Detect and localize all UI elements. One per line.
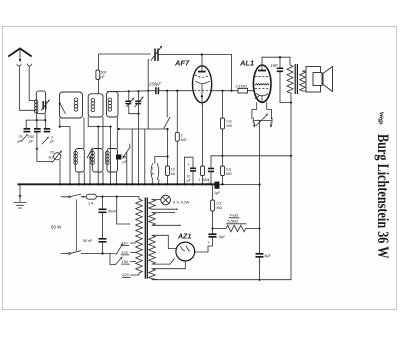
svg-text:Burg Lichtenstein 36 W: Burg Lichtenstein 36 W — [374, 134, 391, 259]
svg-text:kΩ: kΩ — [171, 172, 176, 176]
svg-text:150: 150 — [122, 259, 129, 264]
svg-text:1nF: 1nF — [271, 63, 279, 68]
svg-text:0,8: 0,8 — [226, 168, 231, 172]
svg-text:1 A: 1 A — [88, 202, 94, 206]
svg-text:MΩ: MΩ — [217, 206, 223, 210]
svg-text:50 W: 50 W — [51, 225, 62, 230]
svg-text:4 V, 0,5A: 4 V, 0,5A — [173, 200, 189, 205]
svg-text:kΩ: kΩ — [49, 155, 54, 159]
svg-text:110: 110 — [121, 241, 128, 246]
svg-text:250pF: 250pF — [148, 81, 161, 86]
svg-text:8µF: 8µF — [219, 235, 226, 239]
svg-text:10: 10 — [171, 168, 175, 172]
svg-text:2: 2 — [181, 134, 183, 138]
svg-text:T.: T. — [152, 167, 155, 171]
svg-text:Feld: Feld — [230, 213, 238, 218]
svg-text:220: 220 — [121, 272, 129, 277]
svg-text:MΩ: MΩ — [227, 124, 233, 128]
svg-text:5,5kΩ: 5,5kΩ — [228, 219, 239, 224]
svg-text:0,2: 0,2 — [217, 202, 222, 206]
svg-text:AF7: AF7 — [174, 59, 190, 68]
svg-text:0,8: 0,8 — [227, 120, 232, 124]
svg-text:nF: nF — [88, 239, 93, 243]
svg-text:125: 125 — [121, 250, 128, 255]
svg-text:A.: A. — [152, 172, 155, 176]
svg-text:µF: µF — [50, 140, 55, 144]
svg-text:AZ1: AZ1 — [177, 233, 191, 240]
svg-text:Wega: Wega — [378, 112, 385, 126]
svg-text:8µF: 8µF — [265, 254, 272, 258]
svg-text:0,1MΩ: 0,1MΩ — [236, 85, 247, 89]
svg-text:50: 50 — [83, 239, 87, 243]
svg-text:1µF: 1µF — [214, 191, 221, 195]
svg-text:1: 1 — [199, 178, 201, 182]
svg-text:20: 20 — [49, 151, 54, 155]
svg-text:pF: pF — [28, 139, 34, 143]
svg-text:AL1: AL1 — [239, 59, 254, 68]
svg-text:MΩ: MΩ — [181, 138, 187, 142]
svg-text:MΩ: MΩ — [226, 172, 232, 176]
svg-text:500: 500 — [101, 71, 107, 75]
svg-text:50nF: 50nF — [108, 210, 117, 214]
